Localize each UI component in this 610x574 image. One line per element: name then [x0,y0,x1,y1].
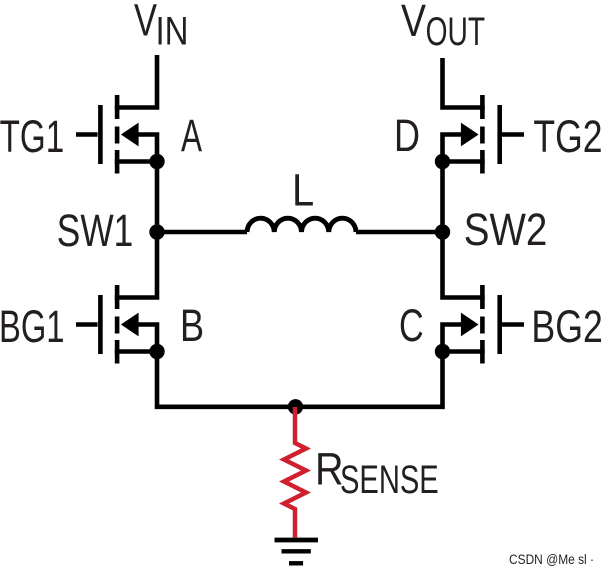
svg-text:OUT: OUT [426,10,486,54]
wire transistor B source [115,349,157,354]
junction dot bottom rail / R_SENSE node [288,399,303,414]
transistor A channel segments [115,95,120,174]
junction dot node SW2 [435,224,450,239]
transistor C channel segments [480,285,485,364]
wire transistor A source [115,159,157,164]
junction dot A source [149,154,164,169]
transistor B gate lead [76,322,98,327]
label R_SENSE [315,444,439,502]
transistor D channel segments [480,95,485,174]
label V_OUT [401,0,485,54]
wire A source to SW1 to B drain [115,162,157,298]
ground symbol [275,540,319,563]
wire D source to SW2 to C drain [443,162,485,298]
label V_IN [134,0,189,54]
svg-text:SW2: SW2 [464,204,548,255]
svg-text:D: D [394,110,420,161]
wire transistor C body [443,325,462,352]
junction dot node SW1 [149,224,164,239]
junction dot C source [435,344,450,359]
wire transistor C source [443,349,485,354]
svg-text:V: V [401,0,426,46]
wire SW1 to SW2 with inductor L [157,230,443,235]
transistor C gate bar [497,295,502,354]
svg-text:TG2: TG2 [533,111,602,162]
junction dot B source [149,344,164,359]
junction dot D source [435,154,450,169]
svg-text:L: L [292,165,314,216]
resistor R_SENSE (red zigzag) [284,407,306,538]
wire transistor D source [443,159,485,164]
wire bottom rail B source to C source [157,352,443,407]
transistor D gate bar [497,105,502,164]
svg-text:SW1: SW1 [57,205,133,256]
svg-text:BG2: BG2 [531,301,602,352]
wire V_IN to transistor A drain [115,55,157,108]
svg-text:CSDN @Me sl ·: CSDN @Me sl · [509,552,594,567]
transistor B body arrow [121,313,139,337]
transistor B gate bar [98,295,103,354]
inductor L coil [247,218,356,232]
wire transistor D body [443,135,462,162]
svg-text:SENSE: SENSE [340,458,439,502]
transistor A gate lead [76,132,98,137]
transistor B channel segments [115,285,120,364]
svg-text:B: B [180,300,204,351]
wire V_OUT to transistor D drain [443,58,485,108]
transistor D body arrow [461,123,479,147]
transistor D gate lead [502,132,524,137]
transistor C gate lead [502,322,524,327]
svg-text:C: C [399,300,424,351]
svg-text:TG1: TG1 [0,111,64,162]
wire transistor B body [138,325,157,352]
transistor A body arrow [121,123,139,147]
transistor C body arrow [461,313,479,337]
svg-text:BG1: BG1 [0,301,65,352]
svg-text:V: V [134,0,157,46]
transistor A gate bar [98,105,103,164]
wire transistor A body [138,135,157,162]
svg-text:IN: IN [156,10,189,54]
svg-text:A: A [181,110,202,161]
